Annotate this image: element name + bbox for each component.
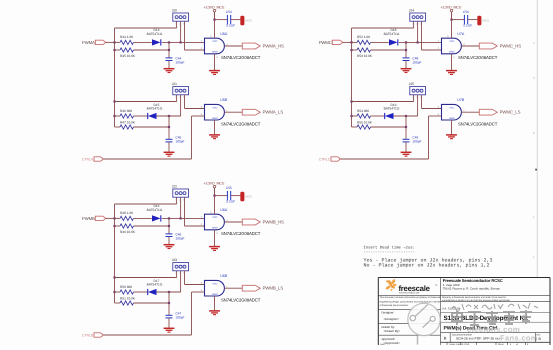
wire LS row2 a xyxy=(115,302,121,304)
capacitor C45 100pF xyxy=(166,139,173,142)
junction row2/cap branch xyxy=(405,49,407,51)
wire jumper pin1 stub (phase A) xyxy=(176,21,178,28)
svg-text:BAT54T1G: BAT54T1G xyxy=(147,208,163,212)
wire jumper J21 pin3 down xyxy=(184,95,186,109)
resistor R48 1.0K xyxy=(120,216,134,220)
wire gate U5B output xyxy=(224,111,242,113)
wire gate U6A output xyxy=(224,221,242,223)
wire LS RC node down to cap xyxy=(405,116,407,139)
ground bar (rotated) (phase C) xyxy=(477,16,481,26)
legal disclaimer text right column xyxy=(442,296,511,302)
svg-text:C55: C55 xyxy=(226,186,232,190)
watermark script scribble row xyxy=(452,303,538,311)
capacitor C44 100pF xyxy=(166,58,173,61)
svg-text:MCU: MCU xyxy=(482,19,489,23)
wire LS row1 a xyxy=(115,291,121,293)
junction LS row1/cap xyxy=(405,115,407,117)
junction LS row1/cap xyxy=(168,291,170,293)
wire LS row1 a xyxy=(352,115,358,117)
jumper header J23 pin numbers 1 2 3 xyxy=(175,272,184,275)
diode D17 BAT54T1G xyxy=(148,289,157,295)
svg-text:CTRLA: CTRLA xyxy=(82,158,94,162)
svg-text:----------------------: ---------------------- xyxy=(364,251,415,255)
svg-text:100pF: 100pF xyxy=(175,316,184,320)
resistor R49 10.0K xyxy=(120,224,134,228)
svg-text:SN74LVC2G08ADCT: SN74LVC2G08ADCT xyxy=(221,121,261,126)
wire LS row2 a xyxy=(115,126,121,128)
junction LS row2/cap branch xyxy=(168,126,170,128)
svg-text:J22: J22 xyxy=(172,184,177,188)
off-page connector CTRLC xyxy=(331,157,340,161)
wire LS RC node down to cap xyxy=(168,292,170,315)
gate U7B input pin numbers xyxy=(438,106,466,117)
svg-text:VCC: VCC xyxy=(212,40,217,43)
wire row1 c to gate input 1 xyxy=(162,217,205,219)
svg-text:GND: GND xyxy=(212,51,218,54)
junction at decoupling branch (phase B) xyxy=(213,195,215,197)
svg-text:+3.3VD_MCU: +3.3VD_MCU xyxy=(440,6,461,10)
wire cap to ground xyxy=(405,61,407,69)
wire CTRLC vertical up xyxy=(428,116,430,159)
svg-text:100pF: 100pF xyxy=(175,140,184,144)
svg-text:BAT54T1G: BAT54T1G xyxy=(384,32,400,36)
wire gate U7A output xyxy=(461,45,479,47)
wire LS row2 a xyxy=(352,126,358,128)
svg-text:R54 680: R54 680 xyxy=(357,109,369,113)
svg-text:CTRLC: CTRLC xyxy=(319,158,331,162)
off-page connector PWMC xyxy=(332,40,343,44)
wire RC node down to cap xyxy=(168,218,170,233)
svg-text:U6B: U6B xyxy=(220,274,228,278)
AND gate U5B SN74LVC2G08ADCT xyxy=(205,104,225,120)
junction LS row2/cap branch xyxy=(405,126,407,128)
svg-text:C56: C56 xyxy=(463,10,469,14)
svg-text:R44 1.0K: R44 1.0K xyxy=(120,35,134,39)
jumper header J21 xyxy=(173,87,189,95)
off-page connector PWMC_LS xyxy=(479,109,497,115)
sheet border tick xyxy=(535,169,537,171)
wire row1 a xyxy=(115,217,121,219)
svg-text:+3.3VD_MCU: +3.3VD_MCU xyxy=(203,182,224,186)
svg-text:PWMB_HS: PWMB_HS xyxy=(263,219,284,224)
ground (gate U5A) xyxy=(209,71,220,75)
power symbol (phase A) xyxy=(213,9,215,11)
svg-text:100pF: 100pF xyxy=(412,140,421,144)
watermark large characters xyxy=(451,310,532,325)
svg-text:1: 1 xyxy=(175,22,176,25)
wire cap to ground xyxy=(168,237,170,245)
junction bus/LS rail (phase C) xyxy=(350,100,352,102)
jumper header J25 xyxy=(410,87,426,95)
svg-text:<Drawn By>: <Drawn By> xyxy=(384,329,401,333)
ground bar (rotated) (phase B) xyxy=(240,192,244,202)
wire cap to ground xyxy=(168,61,170,69)
jumper header J21 pin numbers 1 2 3 xyxy=(175,96,184,99)
wire gate U6B output xyxy=(224,287,242,289)
svg-text:CTRLB: CTRLB xyxy=(82,334,94,338)
AND gate U5A SN74LVC2G08ADCT xyxy=(205,38,225,54)
svg-text:PWMA_HS: PWMA_HS xyxy=(263,43,284,48)
wire jumper J24 pin3 down xyxy=(421,21,423,50)
ground (gate U7B) xyxy=(446,135,457,139)
ground bar (rotated) (phase A) xyxy=(240,16,244,26)
ground (gate U5B) xyxy=(209,135,220,139)
junction bus/row1 (phase C) xyxy=(350,41,352,43)
resistor R54 680 xyxy=(357,114,371,118)
off-page connector CTRLB xyxy=(94,333,103,337)
svg-text:SN74LVC2G08ADCT: SN74LVC2G08ADCT xyxy=(458,121,498,126)
title block bottom row cell dividers (cut off) xyxy=(447,342,526,345)
ground (gate U6A) xyxy=(209,247,220,251)
wire PWMC to bus xyxy=(343,41,352,43)
svg-text:U7A: U7A xyxy=(457,32,465,36)
wire jumper J22 pin3 to gate input 2 xyxy=(185,225,205,227)
svg-text:GND: GND xyxy=(212,117,218,120)
svg-text:No - Place jumper on J2x heade: No - Place jumper on J2x headers, pins 1… xyxy=(364,263,490,269)
svg-text:J23: J23 xyxy=(172,258,177,262)
svg-text:R47 10.0K: R47 10.0K xyxy=(120,120,136,124)
wire CTRLB to gate input 2 xyxy=(192,291,205,293)
wire jumper J22 pin3 down xyxy=(184,197,186,226)
svg-text:R55 10.0K: R55 10.0K xyxy=(357,120,373,124)
wire CTRLA vertical up xyxy=(191,116,193,159)
wire row1 c to gate input 1 xyxy=(162,41,205,43)
wire CTRLA horizontal xyxy=(103,158,191,160)
wire to decoupling cap (phase B) xyxy=(215,195,228,197)
wire power vertical (phase B) xyxy=(214,188,216,196)
svg-text:engineering design, procuremen: engineering design, procurement and manu… xyxy=(380,301,441,304)
resistor R47 10.0K xyxy=(120,125,134,129)
capacitor C48 100pF xyxy=(403,58,410,61)
wire row2 b xyxy=(371,49,407,51)
svg-text:VCC: VCC xyxy=(212,106,217,109)
diode D18 BAT54T1G xyxy=(389,39,398,45)
svg-text:U5B: U5B xyxy=(220,98,228,102)
legal disclaimer text left column xyxy=(380,296,442,307)
wire cap to ground flag (phase A) xyxy=(231,19,241,21)
gate U5B input pin numbers xyxy=(201,106,229,117)
capacitor C54 0.1UF (phase A) xyxy=(227,15,230,24)
wire jumper pin1 stub (phase B) xyxy=(176,271,178,278)
AND gate U6B SN74LVC2G08ADCT xyxy=(205,280,225,296)
wire row2 b xyxy=(134,49,170,51)
wire row2 b xyxy=(134,225,170,227)
svg-text:MCU: MCU xyxy=(245,195,252,199)
capacitor C46 100pF xyxy=(166,234,173,237)
wire gate U6A power pin up xyxy=(214,188,216,214)
wire to decoupling cap (phase A) xyxy=(215,19,228,21)
svg-text:+3.3VD_MCU: +3.3VD_MCU xyxy=(203,6,224,10)
wire CTRLA to gate input 2 xyxy=(192,115,205,117)
wire row1 b xyxy=(134,217,152,219)
svg-text:C54: C54 xyxy=(226,10,232,14)
wire to decoupling cap (phase C) xyxy=(452,19,465,21)
wire power vertical (phase C) xyxy=(451,12,453,20)
vertical bus wire (phase B) xyxy=(114,204,116,303)
svg-text:R53 10.0K: R53 10.0K xyxy=(357,54,373,58)
diode D15 BAT54T1G xyxy=(148,113,157,119)
AND gate U7B SN74LVC2G08ADCT xyxy=(442,104,462,120)
wire jumper J21 pin3 to gate input 1 xyxy=(185,108,205,110)
svg-text:VCC: VCC xyxy=(449,106,454,109)
off-page connector CTRLA xyxy=(94,157,103,161)
wire jumper J23 pin2 down to LS row1 xyxy=(180,271,182,292)
wire jumper pin1 stub (phase C) xyxy=(413,95,415,102)
wire gate U7A power pin up xyxy=(451,12,453,38)
wire gate U6A ground pin down xyxy=(214,230,216,246)
svg-text:BAT54T1G: BAT54T1G xyxy=(147,32,163,36)
wire LS row1 a xyxy=(115,115,121,117)
svg-text:100pF: 100pF xyxy=(175,60,184,64)
jumper header J24 pin numbers 1 2 3 xyxy=(412,22,421,25)
junction LS row2/cap branch xyxy=(168,302,170,304)
junction bus/row1 (phase B) xyxy=(113,217,115,219)
capacitor C49 100pF xyxy=(403,139,410,142)
wire CTRLB vertical up xyxy=(191,292,193,335)
wire row1 a xyxy=(115,41,121,43)
gate U5A input pin numbers xyxy=(201,35,229,59)
wire top rail to jumper pin1 (phase C) xyxy=(352,27,414,29)
wire LS rail to jumper pin1 (phase A) xyxy=(115,101,177,103)
svg-text:GND: GND xyxy=(212,293,218,296)
svg-text:1: 1 xyxy=(175,198,176,201)
junction bus/LS rail (phase A) xyxy=(113,100,115,102)
sheet border zone numbers xyxy=(533,41,535,259)
wire cap to ground flag (phase C) xyxy=(468,19,478,21)
wire jumper J23 pin3 down xyxy=(184,271,186,285)
title block outer border xyxy=(378,278,550,346)
wire CTRLC to gate input 2 xyxy=(429,115,442,117)
title block grid lines xyxy=(378,278,550,346)
jumper header J25 pin numbers 1 2 3 xyxy=(412,96,421,99)
svg-text:<Approved>: <Approved> xyxy=(384,341,401,345)
resistor R44 1.0K xyxy=(120,40,134,44)
wire LS RC node down to cap xyxy=(168,116,170,139)
svg-text:R51 10.0K: R51 10.0K xyxy=(120,296,136,300)
wire power vertical (phase A) xyxy=(214,12,216,20)
wire top rail to jumper pin1 (phase A) xyxy=(115,27,177,29)
diode D19 BAT54T1G xyxy=(385,113,394,119)
wire CTRLC horizontal xyxy=(340,158,428,160)
wire CTRLB horizontal xyxy=(103,334,191,336)
svg-text:PWMC_LS: PWMC_LS xyxy=(500,110,521,115)
wire row1 b xyxy=(371,41,389,43)
wire LS cap to ground xyxy=(168,142,170,152)
svg-text:GND: GND xyxy=(449,51,455,54)
Freescale logo symbol xyxy=(385,279,396,291)
ground (C47) xyxy=(164,328,175,332)
svg-text:1: 1 xyxy=(175,272,176,275)
svg-text:Insert Dead time ~2us:: Insert Dead time ~2us: xyxy=(364,245,415,250)
svg-text:semiconductor: semiconductor xyxy=(399,292,420,295)
gate U7A input pin numbers xyxy=(438,35,466,59)
svg-text:Warranty is Freescale Semicond: Warranty is Freescale Semiconductor and … xyxy=(442,296,506,299)
wire jumper J20 pin3 down xyxy=(184,21,186,50)
wire RC node down to cap xyxy=(168,42,170,57)
off-page connector PWMC_HS xyxy=(479,43,497,49)
wire LS row1 c xyxy=(157,115,181,117)
junction LS row1/cap xyxy=(168,115,170,117)
resistor R53 10.0K xyxy=(357,48,371,52)
junction bus/row2 (phase C) xyxy=(350,49,352,51)
wire row2 a xyxy=(115,225,121,227)
wire LS row1 b xyxy=(134,291,148,293)
resistor R45 10.0K xyxy=(120,48,134,52)
ground (C48) xyxy=(401,69,412,73)
AND gate U6A SN74LVC2G08ADCT xyxy=(205,214,225,230)
svg-text:R49 10.0K: R49 10.0K xyxy=(120,230,136,234)
junction row1/cap xyxy=(405,41,407,43)
junction row1/cap xyxy=(168,217,170,219)
wire row2 a xyxy=(352,49,358,51)
vertical bus wire (phase C) xyxy=(351,28,353,127)
wire jumper pin1 stub (phase A) xyxy=(176,95,178,102)
jumper header J20 xyxy=(173,13,189,21)
junction bus/row1 (phase A) xyxy=(113,41,115,43)
junction row1/jumper pin2 xyxy=(180,41,182,43)
wire gate U5B ground pin down xyxy=(214,120,216,134)
svg-text:VCC: VCC xyxy=(212,282,217,285)
svg-text:VCC: VCC xyxy=(212,216,217,219)
svg-text:R45 10.0K: R45 10.0K xyxy=(120,54,136,58)
wire LS rail to jumper pin1 (phase B) xyxy=(115,277,177,279)
power symbol (phase B) xyxy=(213,185,215,187)
svg-text:of Freescale Semiconductor.: of Freescale Semiconductor. xyxy=(380,304,409,307)
svg-text:™: ™ xyxy=(435,284,438,288)
wire gate U5A ground pin down xyxy=(214,54,216,70)
svg-text:J21: J21 xyxy=(172,82,177,86)
svg-text:PWMB: PWMB xyxy=(82,216,95,221)
svg-text:0.1UF: 0.1UF xyxy=(226,23,235,27)
wire LS cap to ground xyxy=(405,142,407,152)
svg-text:PWMA_LS: PWMA_LS xyxy=(263,110,284,115)
wire jumper J21 pin2 down to LS row1 xyxy=(180,95,182,116)
junction at decoupling branch (phase A) xyxy=(213,19,215,21)
capacitor C56 0.1UF (phase C) xyxy=(464,15,467,24)
sheet border vertical line xyxy=(536,0,538,277)
vertical bus wire (phase A) xyxy=(114,28,116,127)
junction bus/LS row1 (phase C) xyxy=(350,115,352,117)
svg-text:SN74LVC2G08ADCT: SN74LVC2G08ADCT xyxy=(221,231,261,236)
wire jumper pin1 stub (phase C) xyxy=(413,21,415,28)
svg-text:0.1UF: 0.1UF xyxy=(226,199,235,203)
jumper header J24 xyxy=(410,13,426,21)
svg-text:GND: GND xyxy=(449,117,455,120)
resistor R50 680 xyxy=(120,290,134,294)
svg-text:PWMC: PWMC xyxy=(319,40,332,45)
off-page connector PWMA_HS xyxy=(242,43,260,49)
svg-text:SN74LVC2G08ADCT: SN74LVC2G08ADCT xyxy=(221,55,261,60)
wire jumper J24 pin2 down to row1 xyxy=(417,21,419,42)
resistor R51 10.0K xyxy=(120,301,134,305)
diode D16 BAT54T1G xyxy=(152,215,161,221)
capacitor C47 100pF xyxy=(166,315,173,318)
wire cap to ground flag (phase B) xyxy=(231,195,241,197)
svg-text:756 61 Roznov p. R. Czech repu: 756 61 Roznov p. R. Czech republic, Euro… xyxy=(443,287,501,291)
svg-text:PWMC_HS: PWMC_HS xyxy=(500,43,522,48)
junction bus/LS row1 (phase A) xyxy=(113,115,115,117)
jumper header J22 pin numbers 1 2 3 xyxy=(175,198,184,201)
wire gate U7A ground pin down xyxy=(451,54,453,70)
capacitor C55 0.1UF (phase B) xyxy=(227,191,230,200)
wire RC node down to cap xyxy=(405,42,407,57)
svg-text:BAT54T1G: BAT54T1G xyxy=(147,283,163,287)
svg-text:1: 1 xyxy=(175,96,176,99)
off-page connector PWMB_LS xyxy=(242,285,260,291)
junction bus/LS row1 (phase B) xyxy=(113,291,115,293)
wire row1 c to gate input 1 xyxy=(399,41,442,43)
svg-text:J20: J20 xyxy=(172,8,177,12)
jumper header J22 xyxy=(173,189,189,197)
wire gate U7B output xyxy=(461,111,479,113)
svg-text:R52 1.0K: R52 1.0K xyxy=(357,35,371,39)
off-page connector PWMA_LS xyxy=(242,109,260,115)
gate U6A input pin numbers xyxy=(201,211,229,235)
wire LS rail to jumper pin1 (phase C) xyxy=(352,101,414,103)
svg-text:MCU: MCU xyxy=(245,19,252,23)
svg-text:1: 1 xyxy=(412,96,413,99)
wire gate U5A power pin up xyxy=(214,12,216,38)
wire LS cap to ground xyxy=(168,318,170,328)
svg-text:Fans.com: Fans.com xyxy=(500,334,538,343)
wire jumper J25 pin3 to gate input 1 xyxy=(422,108,442,110)
svg-text:SN74LVC2G08ADCT: SN74LVC2G08ADCT xyxy=(458,55,498,60)
ground (C44) xyxy=(164,69,175,73)
ground (gate U6B) xyxy=(209,311,220,315)
svg-text:R48 1.0K: R48 1.0K xyxy=(120,211,134,215)
junction at decoupling branch (phase C) xyxy=(450,19,452,21)
junction row1/jumper pin2 xyxy=(180,217,182,219)
wire LS row1 b xyxy=(134,115,148,117)
power symbol (phase C) xyxy=(450,9,452,11)
junction bus/row2 (phase A) xyxy=(113,49,115,51)
wire jumper J25 pin3 down xyxy=(421,95,423,109)
svg-text:R46 680: R46 680 xyxy=(120,109,132,113)
svg-text:U6A: U6A xyxy=(220,208,228,212)
junction row1/cap xyxy=(168,41,170,43)
resistor R52 1.0K xyxy=(357,40,371,44)
svg-text:BAT54T1G: BAT54T1G xyxy=(147,107,163,111)
svg-text:<Designer>: <Designer> xyxy=(384,317,400,321)
jumper header J23 xyxy=(173,263,189,271)
svg-text:PWMB_LS: PWMB_LS xyxy=(263,286,284,291)
svg-text:0.1UF: 0.1UF xyxy=(463,23,472,27)
wire jumper J22 pin2 down to row1 xyxy=(180,197,182,218)
svg-text:R50 680: R50 680 xyxy=(120,285,132,289)
wire jumper pin1 stub (phase B) xyxy=(176,197,178,204)
wire LS row2 b xyxy=(134,302,170,304)
svg-text:PWMA: PWMA xyxy=(82,40,95,45)
svg-text:GND: GND xyxy=(212,227,218,230)
wire LS row1 b xyxy=(371,115,385,117)
diode D13 BAT54T1G xyxy=(152,39,161,45)
wire row1 a xyxy=(352,41,358,43)
svg-text:Designer:: Designer: xyxy=(382,311,395,315)
wire LS row1 c xyxy=(157,291,181,293)
wire PWMB to bus xyxy=(106,217,115,219)
junction bus/LS rail (phase B) xyxy=(113,276,115,278)
wire LS row2 b xyxy=(371,126,407,128)
date row remnant text xyxy=(380,343,529,346)
ground (gate U7A) xyxy=(446,71,457,75)
off-page connector PWMA xyxy=(95,40,106,44)
wire jumper J24 pin3 to gate input 2 xyxy=(422,49,442,51)
svg-text:VCC: VCC xyxy=(449,40,454,43)
wire jumper J20 pin3 to gate input 2 xyxy=(185,49,205,51)
wire jumper J23 pin3 to gate input 1 xyxy=(185,284,205,286)
off-page connector PWMB xyxy=(95,216,106,220)
wire gate U6B ground pin down xyxy=(214,296,216,310)
